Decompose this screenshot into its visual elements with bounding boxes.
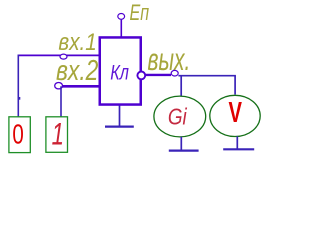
switch U1 body (100, 37, 141, 104)
label Gi (168, 105, 188, 130)
ground under Gi (169, 150, 199, 152)
switch ground stub (119, 106, 121, 127)
label Еп (130, 0, 150, 25)
V bottom stub (236, 136, 238, 149)
wire вх.2 (60, 85, 100, 88)
svg-text:1: 1 (52, 116, 64, 152)
svg-text:вх.1: вх.1 (58, 29, 96, 56)
svg-text:Еп: Еп (130, 0, 150, 25)
wire down to logic source 1 (60, 86, 62, 117)
switch ground bar (105, 125, 134, 127)
wire output horizontal (178, 75, 236, 77)
wire left vertical to logic source 0 (17, 55, 19, 117)
generator Gi ellipse (154, 96, 206, 137)
svg-text:вх.2: вх.2 (56, 56, 99, 87)
terminal вх.2 (55, 83, 63, 89)
ground under V (223, 148, 254, 150)
svg-text:вых.: вых. (147, 42, 190, 77)
terminal вх.1 (60, 54, 67, 59)
label вых. (147, 42, 190, 77)
wire вх.1 (18, 54, 100, 56)
label Кл (110, 61, 129, 85)
digit 1 (52, 116, 64, 152)
junction dot (18, 97, 21, 100)
svg-text:V: V (229, 98, 243, 129)
label вх.1 (58, 29, 96, 56)
svg-text:0: 0 (12, 119, 23, 150)
wire Еп vertical (120, 20, 122, 38)
wire down to Gi (180, 76, 182, 97)
logic source 0 box (9, 117, 30, 153)
wire вых thick (146, 74, 171, 76)
wire down to V (234, 76, 236, 95)
svg-text:Кл: Кл (110, 61, 129, 85)
Gi bottom stub (180, 137, 182, 150)
label V (229, 98, 243, 129)
label вх.2 (56, 56, 99, 87)
digit 0 (12, 119, 23, 150)
output node circle (137, 72, 145, 80)
terminal вых (171, 70, 178, 76)
logic source 1 box (46, 117, 68, 153)
voltmeter V ellipse (210, 95, 260, 136)
svg-text:Gi: Gi (168, 105, 188, 130)
power terminal Еп (118, 14, 125, 20)
